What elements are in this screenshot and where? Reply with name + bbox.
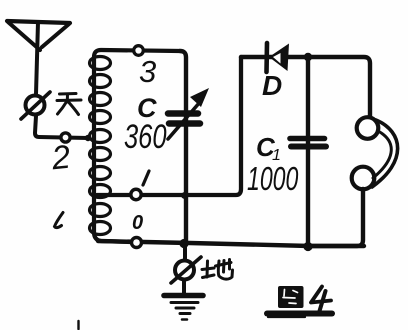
svg-text:3: 3 <box>139 54 156 89</box>
svg-text:360: 360 <box>124 119 167 156</box>
svg-text:2: 2 <box>49 138 72 177</box>
svg-text:1000: 1000 <box>247 161 298 198</box>
svg-text:D: D <box>262 70 282 101</box>
svg-text:0: 0 <box>132 212 143 234</box>
